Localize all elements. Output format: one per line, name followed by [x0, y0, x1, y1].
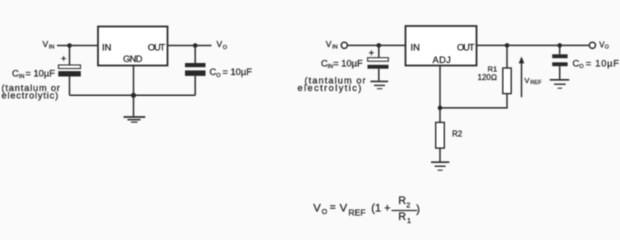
- svg-text:IN: IN: [102, 42, 111, 52]
- op-amp U1 regulator box (left, IN/OUT/GND): [98, 27, 168, 66]
- wire OUT to VO terminal (right): [477, 44, 590, 46]
- svg-text:120Ω: 120Ω: [478, 73, 498, 82]
- svg-text:= 10µF: = 10µF: [586, 58, 620, 68]
- wire junction B down to capacitor CO (left): [194, 46, 196, 64]
- svg-text:REF: REF: [348, 208, 365, 218]
- wire CO to ground rail (left): [194, 76, 196, 95]
- svg-text:1: 1: [407, 216, 411, 225]
- svg-text:V: V: [43, 39, 49, 49]
- node VIN (left circuit) label: [43, 39, 55, 51]
- svg-text:= 10µF: = 10µF: [333, 58, 363, 68]
- wire junction D down to capacitor CIN (right): [378, 45, 380, 57]
- svg-text:electrolytic): electrolytic): [298, 83, 363, 93]
- svg-text:REF: REF: [530, 80, 542, 86]
- wire junction F down to capacitor CO (right): [559, 45, 561, 54]
- svg-text:V: V: [313, 202, 321, 214]
- svg-text:O: O: [223, 45, 228, 51]
- formula fraction bar: [392, 210, 418, 212]
- capacitor CIN (right) plates: [368, 58, 389, 62]
- label VREF: [524, 76, 542, 86]
- node junction F (OUT / CO right): [557, 43, 562, 48]
- node junction C (rail / ground): [131, 93, 136, 98]
- wire R2 bottom to ground: [439, 148, 441, 161]
- svg-text:R: R: [398, 211, 406, 223]
- value label CO = 10uF (right): [573, 58, 620, 70]
- svg-text:R1: R1: [488, 64, 498, 73]
- label (tantalum or electrolytic) (left): [2, 83, 61, 101]
- svg-text:GND: GND: [123, 54, 143, 64]
- svg-text:O: O: [216, 73, 221, 79]
- node junction E (OUT / R1): [505, 43, 510, 48]
- svg-text:R2: R2: [452, 130, 463, 139]
- capacitor CO (right) plates: [552, 54, 567, 58]
- svg-text:2: 2: [406, 200, 410, 209]
- wire ground rail (left circuit): [70, 94, 196, 96]
- wire VIN terminal to regulator IN (right): [347, 44, 405, 46]
- wire OUT to VO (left): [168, 45, 212, 47]
- svg-text:IN: IN: [332, 45, 338, 51]
- wire rail to ground symbol: [133, 95, 135, 116]
- svg-text:= 10µF: = 10µF: [26, 68, 56, 78]
- value label CIN = 10uF (right): [321, 58, 363, 70]
- wire junction E down to resistor R1: [506, 45, 508, 68]
- node VO terminal circle (right): [589, 42, 595, 48]
- svg-text:=: =: [330, 202, 336, 213]
- ground (left circuit): [124, 117, 146, 122]
- capacitor CIN right polarity plus: [369, 50, 374, 55]
- wire VIN to regulator IN (left): [57, 45, 98, 47]
- wire R1 bottom to ADJ node: [440, 94, 507, 108]
- label (tantalum or electrolytic) (right): [298, 75, 367, 93]
- resistor R2 body: [436, 122, 445, 148]
- svg-text:IN: IN: [19, 74, 25, 80]
- wire CIN to ground rail (left): [69, 77, 71, 96]
- value label CIN = 10uF (left): [12, 68, 55, 80]
- node VO (right circuit) label: [599, 40, 609, 50]
- capacitor CIN polarity plus: [61, 56, 66, 61]
- svg-text:V: V: [326, 39, 332, 49]
- ground (under CO right): [550, 80, 569, 88]
- capacitor CIN (left) plates: [59, 65, 81, 69]
- node junction A (VIN / CIN): [67, 43, 72, 48]
- svg-text:OUT: OUT: [148, 42, 166, 52]
- svg-text:IN: IN: [411, 42, 420, 52]
- value label CO = 10uF (left): [210, 67, 253, 79]
- node VIN (right circuit) label: [326, 39, 338, 51]
- svg-text:O: O: [579, 64, 584, 70]
- node VIN terminal circle (right): [341, 42, 347, 48]
- svg-text:R: R: [398, 195, 406, 207]
- wire CIN right to ground: [378, 69, 380, 81]
- svg-text:V: V: [340, 202, 348, 214]
- svg-text:): ): [416, 203, 420, 215]
- node junction D (VIN / CIN right): [377, 43, 382, 48]
- wire junction A down to capacitor CIN (left): [69, 46, 71, 66]
- VREF arrow: [521, 62, 523, 97]
- svg-text:O: O: [605, 45, 609, 51]
- ground (under CIN right): [370, 81, 388, 88]
- ground (under R2): [431, 162, 449, 170]
- wire CO right to ground: [559, 66, 561, 79]
- svg-text:= 10µF: = 10µF: [223, 67, 253, 77]
- wire ADJ pin down: [439, 66, 441, 123]
- wire GND pin down to rail: [133, 66, 135, 96]
- capacitor CO (left) plates: [185, 63, 206, 67]
- node VO (left circuit) label: [217, 39, 228, 51]
- svg-text:IN: IN: [328, 64, 334, 70]
- svg-text:(1 +: (1 +: [371, 203, 390, 215]
- node junction G (ADJ / R1 / R2): [438, 106, 443, 111]
- svg-text:electrolytic): electrolytic): [2, 91, 60, 101]
- svg-text:ADJ: ADJ: [433, 55, 451, 65]
- svg-text:IN: IN: [49, 45, 55, 51]
- svg-text:O: O: [322, 207, 328, 216]
- node junction B (OUT / CO): [193, 43, 198, 48]
- op-amp U2 regulator box (right, IN/OUT/ADJ): [406, 26, 477, 66]
- formula VO = VREF (1 + R2/R1): [313, 195, 420, 225]
- svg-text:V: V: [217, 39, 223, 49]
- resistor R1 body: [503, 68, 511, 94]
- svg-text:OUT: OUT: [457, 42, 475, 52]
